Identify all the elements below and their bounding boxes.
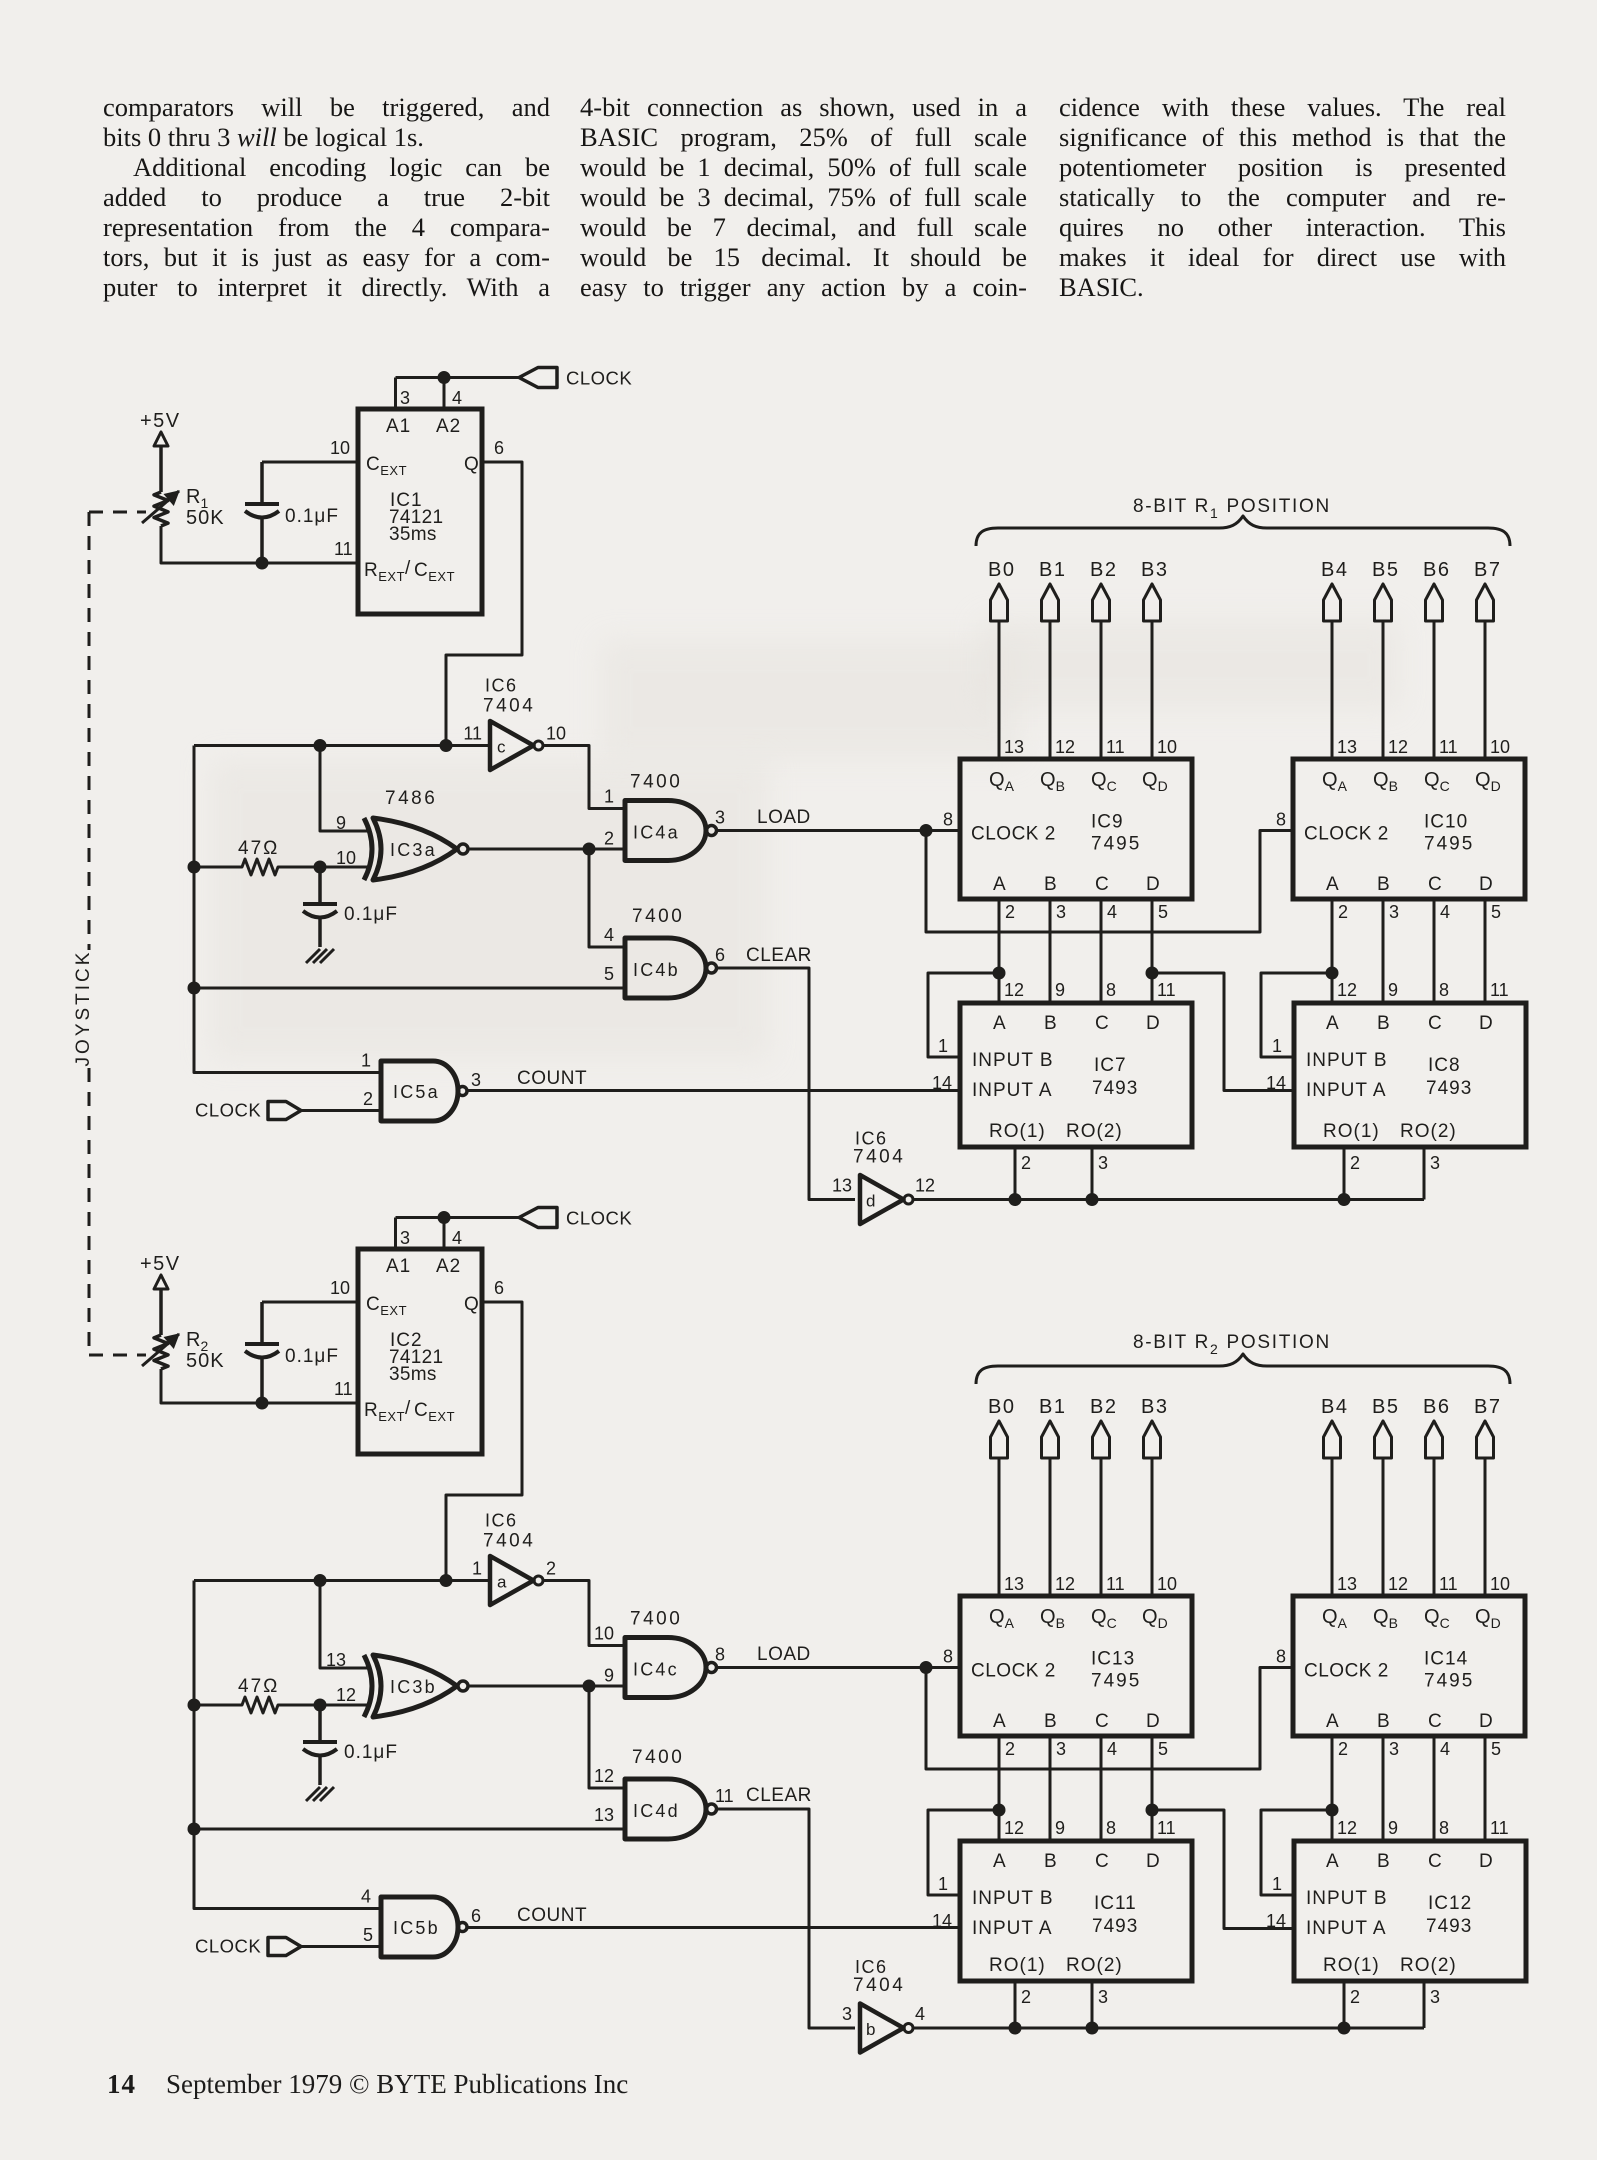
svg-text:D: D xyxy=(1479,1013,1493,1034)
junction rail/IC4d (R2) xyxy=(188,1823,201,1836)
svg-text:IC9: IC9 xyxy=(1091,812,1124,833)
wire COUNT to IC7 INPUT A xyxy=(467,1089,960,1092)
svg-text:B6: B6 xyxy=(1423,559,1450,581)
wire IC2 pins 3/4 to CLOCK connector xyxy=(396,1216,520,1219)
svg-text:B4: B4 xyxy=(1321,559,1348,581)
counter IC11 7493 xyxy=(960,1841,1192,1981)
junction IC13 A / pin 1 hook xyxy=(993,1804,1006,1817)
shift register IC13 7495 xyxy=(960,1596,1192,1736)
svg-text:8: 8 xyxy=(943,1647,953,1667)
svg-text:d: d xyxy=(866,1192,875,1211)
svg-text:12: 12 xyxy=(1388,737,1408,757)
joystick dashed link R1 wiper xyxy=(89,511,146,514)
svg-text:A2: A2 xyxy=(436,1256,461,1277)
svg-text:CLOCK 2: CLOCK 2 xyxy=(1304,824,1389,845)
svg-text:Q: Q xyxy=(464,1294,479,1315)
svg-text:3: 3 xyxy=(400,388,410,408)
svg-text:IC4d: IC4d xyxy=(633,1801,680,1821)
svg-text:IC3a: IC3a xyxy=(390,840,437,860)
svg-text:50K: 50K xyxy=(186,507,225,529)
junction IC2 pin 4 node xyxy=(438,1211,451,1224)
svg-text:QA: QA xyxy=(1322,769,1348,794)
wire IC12 RO(2) stub xyxy=(1423,1981,1426,2028)
wire IC14 C output to counter xyxy=(1433,1736,1436,1841)
svg-text:14: 14 xyxy=(932,1911,952,1931)
svg-text:3: 3 xyxy=(842,2004,852,2024)
svg-text:IC6: IC6 xyxy=(855,1957,888,1977)
wire feedback rail horizontal (R2) xyxy=(194,1579,490,1582)
svg-text:REXT: REXT xyxy=(364,1400,405,1424)
svg-text:3: 3 xyxy=(1056,1739,1066,1759)
svg-text:9: 9 xyxy=(336,813,346,833)
svg-text:B: B xyxy=(1377,1851,1390,1872)
svg-text:5: 5 xyxy=(1491,1739,1501,1759)
junction cap tap (R2) xyxy=(314,1699,327,1712)
svg-text:2: 2 xyxy=(1005,902,1015,922)
svg-text:B4: B4 xyxy=(1321,1396,1348,1418)
svg-text:10: 10 xyxy=(330,1278,350,1298)
junction XOR branch (R1) xyxy=(314,739,327,752)
inverter IC6a 7404 xyxy=(490,1556,534,1605)
wire IC10 C output to counter xyxy=(1433,899,1436,1003)
left rail down to IC5b (R2) xyxy=(194,1581,381,1909)
svg-text:4: 4 xyxy=(1440,1739,1450,1759)
svg-text:B: B xyxy=(1377,1013,1390,1034)
svg-text:RO(2): RO(2) xyxy=(1066,1955,1123,1976)
svg-text:7404: 7404 xyxy=(853,1147,905,1168)
svg-text:B2: B2 xyxy=(1090,559,1117,581)
svg-text:5: 5 xyxy=(363,1925,373,1945)
wire IC12 RO(1) stub xyxy=(1343,1981,1346,2028)
svg-text:QC: QC xyxy=(1091,769,1117,794)
svg-text:11: 11 xyxy=(334,1379,353,1399)
wire IC4d pin 13 from rail xyxy=(194,1828,625,1831)
svg-text:B1: B1 xyxy=(1039,1396,1066,1418)
svg-text:QC: QC xyxy=(1424,1606,1450,1631)
svg-text:B: B xyxy=(1377,874,1390,895)
wire IC2 pin 4 stub xyxy=(443,1218,446,1250)
svg-text:B1: B1 xyxy=(1039,559,1066,581)
svg-text:7493: 7493 xyxy=(1092,1916,1138,1937)
svg-text:INPUT A: INPUT A xyxy=(1306,1080,1387,1101)
svg-text:B6: B6 xyxy=(1423,1396,1450,1418)
svg-text:A: A xyxy=(993,874,1006,895)
wire IC7 pin 1 hook xyxy=(928,973,999,1057)
svg-text:C: C xyxy=(1095,1851,1109,1872)
svg-text:12: 12 xyxy=(594,1766,614,1786)
svg-text:+5V: +5V xyxy=(140,410,181,432)
svg-text:12: 12 xyxy=(1337,980,1357,1000)
svg-text:9: 9 xyxy=(604,1666,614,1686)
svg-text:2: 2 xyxy=(1350,1987,1360,2007)
svg-text:B7: B7 xyxy=(1474,1396,1501,1418)
wire IC1 pin 3 stub xyxy=(394,378,397,410)
svg-text:14: 14 xyxy=(1266,1911,1286,1931)
wire LOAD (R1) xyxy=(717,829,961,832)
svg-text:QC: QC xyxy=(1091,1606,1117,1631)
svg-text:8: 8 xyxy=(1106,980,1116,1000)
capacitor 0.1μF (IC3b side) xyxy=(318,1705,322,1742)
svg-text:7400: 7400 xyxy=(632,906,684,927)
svg-text:B0: B0 xyxy=(988,1396,1015,1418)
svg-text:11: 11 xyxy=(1106,737,1125,757)
svg-text:CLEAR: CLEAR xyxy=(746,945,812,966)
svg-text:CLOCK 2: CLOCK 2 xyxy=(971,1661,1056,1682)
resistor 47Ω (R1) xyxy=(194,859,320,875)
svg-text:12: 12 xyxy=(1055,1574,1075,1594)
joystick dashed vertical (upper) xyxy=(88,512,91,950)
svg-text:B2: B2 xyxy=(1090,1396,1117,1418)
svg-text:C: C xyxy=(1428,1851,1442,1872)
potentiometer R1 50K xyxy=(154,492,168,526)
shift register IC14 7495 xyxy=(1293,1596,1525,1736)
svg-text:D: D xyxy=(1146,874,1160,895)
junction rail/47Ω (R1) xyxy=(188,861,201,874)
wire IC3a output to IC4a xyxy=(468,848,625,851)
svg-text:4: 4 xyxy=(1107,1739,1117,1759)
svg-text:INPUT B: INPUT B xyxy=(1306,1050,1388,1071)
svg-text:QA: QA xyxy=(989,1606,1015,1631)
svg-text:B: B xyxy=(1377,1711,1390,1732)
svg-text:2: 2 xyxy=(1021,1987,1031,2007)
junction rail/47Ω (R2) xyxy=(188,1699,201,1712)
wire IC13 D to IC12 INPUT A xyxy=(1152,1810,1294,1929)
wire IC2 Q to inverter IC6a xyxy=(446,1302,522,1581)
svg-text:11: 11 xyxy=(1490,1818,1509,1838)
svg-text:B: B xyxy=(1044,1851,1057,1872)
svg-text:2: 2 xyxy=(1005,1739,1015,1759)
svg-text:7495: 7495 xyxy=(1424,1671,1474,1692)
svg-text:12: 12 xyxy=(1004,980,1024,1000)
svg-text:0.1μF: 0.1μF xyxy=(285,506,339,527)
wire reset bus (R2) xyxy=(914,2027,1424,2030)
svg-text:IC4b: IC4b xyxy=(633,960,680,980)
svg-text:11: 11 xyxy=(1157,1818,1176,1838)
wire IC14 B output to counter xyxy=(1382,1736,1385,1841)
svg-text:2: 2 xyxy=(604,829,614,849)
svg-text:12: 12 xyxy=(915,1176,935,1196)
svg-text:8: 8 xyxy=(943,810,953,830)
svg-text:7400: 7400 xyxy=(632,1747,684,1768)
svg-text:IC6: IC6 xyxy=(485,676,518,696)
wire CLEAR to IC6d xyxy=(717,968,856,1200)
svg-text:11: 11 xyxy=(1439,1574,1458,1594)
svg-text:7404: 7404 xyxy=(483,1531,535,1552)
svg-text:LOAD: LOAD xyxy=(757,1644,811,1665)
svg-text:2: 2 xyxy=(1338,902,1348,922)
svg-text:IC12: IC12 xyxy=(1428,1893,1472,1914)
svg-text:RO(1): RO(1) xyxy=(1323,1121,1380,1142)
wire collector LOAD to IC14 pin 8 (R2) xyxy=(926,1668,1293,1770)
svg-text:8: 8 xyxy=(1106,1818,1116,1838)
svg-text:A: A xyxy=(1326,1711,1339,1732)
wire XOR IC3b bottom input xyxy=(320,1704,368,1707)
potentiometer R2 50K xyxy=(154,1335,168,1369)
svg-text:B0: B0 xyxy=(988,559,1015,581)
junction inverter input (R1) xyxy=(440,739,453,752)
svg-text:14: 14 xyxy=(932,1073,952,1093)
svg-text:3: 3 xyxy=(715,808,725,828)
svg-text:5: 5 xyxy=(1158,1739,1168,1759)
one-shot IC2 74121 xyxy=(358,1249,482,1454)
svg-text:B5: B5 xyxy=(1372,559,1399,581)
NAND IC4a 7400 xyxy=(625,801,706,861)
wire R1 to IC1 pin 11 xyxy=(161,526,358,563)
wire IC10 A output to counter xyxy=(1331,899,1334,1003)
svg-text:13: 13 xyxy=(326,1650,346,1670)
wire IC6c output to IC4a first input xyxy=(544,746,625,809)
svg-text:IC3b: IC3b xyxy=(390,1677,437,1697)
svg-text:1: 1 xyxy=(1272,1874,1282,1894)
svg-text:B: B xyxy=(1044,874,1057,895)
counter IC12 7493 xyxy=(1294,1841,1526,1981)
junction IC4b branch xyxy=(583,843,596,856)
clock input connector (IC5b) xyxy=(268,1938,301,1956)
resistor 47Ω (R2) xyxy=(194,1697,320,1713)
wire IC13 B output to counter xyxy=(1049,1736,1052,1841)
svg-text:10: 10 xyxy=(594,1624,614,1644)
wire IC14 A output to counter xyxy=(1331,1736,1334,1841)
wire IC14 D output to counter xyxy=(1484,1736,1487,1841)
wire IC9 D to IC8 INPUT A xyxy=(1152,973,1294,1091)
svg-text:D: D xyxy=(1479,874,1493,895)
svg-text:7404: 7404 xyxy=(483,696,535,717)
capacitor 0.1μF (IC1) xyxy=(260,462,264,504)
svg-text:IC14: IC14 xyxy=(1424,1649,1468,1670)
svg-text:9: 9 xyxy=(1388,1818,1398,1838)
wire XOR IC3b top input xyxy=(320,1581,368,1669)
svg-text:QB: QB xyxy=(1040,769,1065,794)
wire LOAD (R2) xyxy=(717,1666,961,1669)
joystick dashed link R2 wiper xyxy=(89,1354,146,1357)
svg-text:12: 12 xyxy=(1337,1818,1357,1838)
junction C/IC1 pin 11 xyxy=(256,557,269,570)
svg-text:A: A xyxy=(1326,1851,1339,1872)
svg-text:47Ω: 47Ω xyxy=(238,1676,279,1697)
svg-text:35ms: 35ms xyxy=(389,524,437,545)
NAND IC5b 7400 xyxy=(381,1897,458,1957)
XOR gate IC3a 7486 xyxy=(364,818,372,880)
clock output connector (R1 channel) xyxy=(519,368,557,388)
svg-text:A: A xyxy=(1326,1013,1339,1034)
svg-text:12: 12 xyxy=(1388,1574,1408,1594)
svg-text:IC10: IC10 xyxy=(1424,812,1468,833)
svg-text:6: 6 xyxy=(494,1278,504,1298)
svg-text:3: 3 xyxy=(1389,902,1399,922)
svg-text:IC4a: IC4a xyxy=(633,823,680,843)
svg-text:IC8: IC8 xyxy=(1428,1055,1461,1076)
svg-text:INPUT A: INPUT A xyxy=(972,1918,1053,1939)
svg-text:7495: 7495 xyxy=(1091,1671,1141,1692)
svg-text:QC: QC xyxy=(1424,769,1450,794)
svg-text:RO(1): RO(1) xyxy=(989,1121,1046,1142)
wire IC8 RO(1) stub xyxy=(1343,1147,1346,1200)
svg-text:QA: QA xyxy=(1322,1606,1348,1631)
shift register IC9 7495 xyxy=(960,759,1192,899)
svg-text:8: 8 xyxy=(1439,1818,1449,1838)
svg-text:CLOCK: CLOCK xyxy=(195,1100,261,1121)
svg-text:2: 2 xyxy=(1338,1739,1348,1759)
svg-text:10: 10 xyxy=(1490,737,1510,757)
svg-text:11: 11 xyxy=(1157,980,1176,1000)
svg-text:INPUT A: INPUT A xyxy=(972,1080,1053,1101)
XOR gate IC3b xyxy=(364,1655,372,1717)
svg-text:IC5b: IC5b xyxy=(393,1918,440,1938)
NAND IC5a 7400 xyxy=(381,1061,458,1121)
wire XOR IC3a top input xyxy=(320,746,368,832)
brace (8-bit R1 bus) xyxy=(976,516,1510,546)
svg-text:7404: 7404 xyxy=(853,1975,905,1996)
wire XOR IC3a bottom input xyxy=(320,866,368,869)
ground (R1) xyxy=(306,949,320,963)
svg-text:1: 1 xyxy=(938,1874,948,1894)
svg-text:8: 8 xyxy=(1439,980,1449,1000)
svg-text:QD: QD xyxy=(1142,1606,1168,1631)
svg-text:10: 10 xyxy=(330,438,350,458)
wire IC9 B output to counter xyxy=(1049,899,1052,1003)
svg-text:B3: B3 xyxy=(1141,1396,1168,1418)
svg-text:3: 3 xyxy=(1430,1987,1440,2007)
svg-text:1: 1 xyxy=(472,1559,482,1579)
svg-text:+5V: +5V xyxy=(140,1253,181,1275)
wire IC13 C output to counter xyxy=(1100,1736,1103,1841)
svg-text:1: 1 xyxy=(938,1036,948,1056)
wire IC10 B output to counter xyxy=(1382,899,1385,1003)
svg-text:3: 3 xyxy=(400,1228,410,1248)
wire IC7 RO(1) stub xyxy=(1014,1147,1017,1200)
svg-text:7493: 7493 xyxy=(1426,1916,1472,1937)
svg-text:13: 13 xyxy=(1004,1574,1024,1594)
svg-text:11: 11 xyxy=(463,724,482,744)
junction IC10 A / pin 1 hook xyxy=(1326,967,1339,980)
svg-text:5: 5 xyxy=(1491,902,1501,922)
svg-text:B: B xyxy=(1044,1013,1057,1034)
svg-text:RO(2): RO(2) xyxy=(1400,1121,1457,1142)
wire clock connector to IC5a xyxy=(301,1109,381,1112)
svg-text:2: 2 xyxy=(546,1559,556,1579)
svg-text:/: / xyxy=(405,1398,411,1419)
svg-text:7493: 7493 xyxy=(1426,1078,1472,1099)
svg-text:CEXT: CEXT xyxy=(366,454,407,478)
inverter IC6b 7404 (reset) xyxy=(860,2004,904,2053)
svg-text:5: 5 xyxy=(604,964,614,984)
svg-text:CLOCK 2: CLOCK 2 xyxy=(971,824,1056,845)
joystick dashed vertical (lower) xyxy=(88,1068,91,1355)
svg-text:7400: 7400 xyxy=(630,1609,682,1630)
wire feedback rail horizontal (R1) xyxy=(194,744,490,747)
svg-text:7486: 7486 xyxy=(385,788,437,809)
svg-text:A: A xyxy=(1326,874,1339,895)
inverter IC6d 7404 (reset) xyxy=(860,1175,904,1224)
svg-text:4: 4 xyxy=(361,1887,371,1907)
capacitor 0.1μF (IC2) xyxy=(260,1302,264,1344)
svg-text:C: C xyxy=(1095,1013,1109,1034)
wire IC9 D output to counter xyxy=(1151,899,1154,1003)
svg-text:11: 11 xyxy=(1439,737,1458,757)
svg-text:RO(2): RO(2) xyxy=(1400,1955,1457,1976)
svg-text:IC5a: IC5a xyxy=(393,1082,440,1102)
svg-text:8-BIT R2 POSITION: 8-BIT R2 POSITION xyxy=(1133,1332,1331,1357)
junction reset bus dots xyxy=(1009,2022,1022,2035)
NAND IC4d 7400 xyxy=(625,1779,706,1839)
NAND IC4b 7400 xyxy=(625,938,706,998)
svg-text:D: D xyxy=(1479,1711,1493,1732)
svg-text:8: 8 xyxy=(1276,810,1286,830)
svg-text:11: 11 xyxy=(715,1786,734,1806)
svg-text:INPUT B: INPUT B xyxy=(972,1050,1054,1071)
svg-text:C: C xyxy=(1428,874,1442,895)
svg-text:D: D xyxy=(1146,1013,1160,1034)
svg-text:14: 14 xyxy=(1266,1073,1286,1093)
svg-text:QB: QB xyxy=(1040,1606,1065,1631)
svg-text:50K: 50K xyxy=(186,1350,225,1372)
svg-text:8: 8 xyxy=(715,1645,725,1665)
wire IC12 pin 1 hook xyxy=(1261,1810,1332,1895)
svg-text:IC6: IC6 xyxy=(855,1129,888,1149)
svg-text:QD: QD xyxy=(1475,769,1501,794)
svg-text:3: 3 xyxy=(1098,1153,1108,1173)
svg-text:QA: QA xyxy=(989,769,1015,794)
svg-text:11: 11 xyxy=(334,539,353,559)
svg-text:C: C xyxy=(1428,1711,1442,1732)
svg-text:6: 6 xyxy=(471,1906,481,1926)
wire IC8 pin 1 hook xyxy=(1261,973,1332,1057)
svg-text:4: 4 xyxy=(915,2004,925,2024)
svg-text:CEXT: CEXT xyxy=(414,1400,455,1424)
svg-text:2: 2 xyxy=(1021,1153,1031,1173)
junction C/IC2 pin 11 xyxy=(256,1397,269,1410)
svg-text:7400: 7400 xyxy=(630,772,682,793)
svg-text:13: 13 xyxy=(594,1805,614,1825)
svg-text:8-BIT R1 POSITION: 8-BIT R1 POSITION xyxy=(1133,496,1331,521)
wire CLEAR to IC6b xyxy=(717,1809,856,2028)
svg-text:35ms: 35ms xyxy=(389,1364,437,1385)
svg-text:INPUT A: INPUT A xyxy=(1306,1918,1387,1939)
svg-text:12: 12 xyxy=(1004,1818,1024,1838)
svg-text:INPUT B: INPUT B xyxy=(1306,1888,1388,1909)
junction rail/IC4b (R1) xyxy=(188,982,201,995)
svg-text:RO(1): RO(1) xyxy=(989,1955,1046,1976)
svg-text:9: 9 xyxy=(1388,980,1398,1000)
svg-text:10: 10 xyxy=(546,724,566,744)
junction IC9 A / pin 1 hook xyxy=(993,967,1006,980)
svg-text:6: 6 xyxy=(494,438,504,458)
svg-text:B3: B3 xyxy=(1141,559,1168,581)
svg-text:10: 10 xyxy=(1157,1574,1177,1594)
svg-text:A1: A1 xyxy=(386,416,411,437)
junction XOR branch (R2) xyxy=(314,1574,327,1587)
svg-text:A: A xyxy=(993,1013,1006,1034)
svg-text:RO(1): RO(1) xyxy=(1323,1955,1380,1976)
svg-text:B5: B5 xyxy=(1372,1396,1399,1418)
wire IC11 pin 1 hook xyxy=(928,1810,999,1895)
junction IC13 D branch xyxy=(1146,1804,1159,1817)
svg-text:REXT: REXT xyxy=(364,560,405,584)
svg-text:INPUT B: INPUT B xyxy=(972,1888,1054,1909)
junction inverter input (R2) xyxy=(440,1574,453,1587)
svg-text:2: 2 xyxy=(1350,1153,1360,1173)
wire IC11 RO(1) stub xyxy=(1014,1981,1017,2028)
shift register IC10 7495 xyxy=(1293,759,1525,899)
svg-text:IC11: IC11 xyxy=(1094,1893,1137,1914)
svg-text:CEXT: CEXT xyxy=(414,560,455,584)
svg-text:9: 9 xyxy=(1055,1818,1065,1838)
svg-text:IC7: IC7 xyxy=(1094,1055,1127,1076)
wire IC9 A output to counter xyxy=(998,899,1001,1003)
svg-text:9: 9 xyxy=(1055,980,1065,1000)
svg-text:4: 4 xyxy=(1107,902,1117,922)
wire IC11 RO(2) stub xyxy=(1091,1981,1094,2028)
